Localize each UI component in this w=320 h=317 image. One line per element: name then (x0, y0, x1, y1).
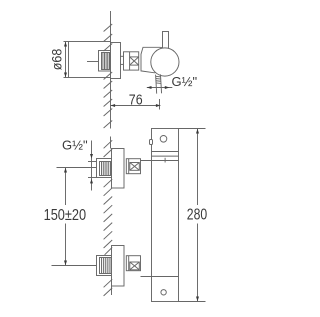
lower threaded wall connector (97, 256, 113, 276)
valve round body (151, 48, 179, 76)
svg-text:G½": G½" (62, 138, 88, 153)
svg-text:280: 280 (187, 207, 208, 224)
dimension 150±20 line with arrows (64, 168, 67, 266)
wall hatching between plates (104, 179, 113, 255)
handle stem (163, 32, 169, 49)
side button tab (150, 140, 153, 145)
lower inlet line across bar (141, 276, 179, 278)
wall segment above upper plate (110, 137, 112, 149)
svg-text:G½": G½" (172, 74, 198, 89)
lower union nut with X (126, 256, 140, 271)
dimension 76 line with arrows (111, 104, 161, 107)
center line stub (87, 61, 99, 63)
upper inlet line across bar (141, 160, 179, 162)
tick mark on upper inlet line (164, 158, 166, 163)
union nut with X (124, 52, 139, 70)
bar seam line 1 (152, 151, 179, 153)
dimension 76 extension line (159, 99, 161, 110)
svg-text:150±20: 150±20 (44, 207, 87, 224)
G1/2 dimension (bottom) vertical line (88, 141, 97, 191)
dimension ø68 line with arrows (64, 42, 67, 78)
upper escutcheon plate (112, 149, 125, 189)
screw hole bottom (161, 290, 166, 295)
svg-text:76: 76 (129, 93, 143, 109)
threaded in-wall connector (side view) (99, 51, 111, 72)
svg-text:ø68: ø68 (48, 49, 64, 71)
lower escutcheon plate (112, 246, 125, 287)
wall segment below lower plate (111, 286, 113, 295)
dimension 280 extension lines (179, 128, 206, 130)
hose G1/2 dimension arrows (147, 86, 173, 89)
connecting neck (121, 55, 124, 57)
bar seam line 2 (152, 155, 179, 157)
in-wall valve body (side view) (69, 42, 111, 78)
screw hole top (160, 136, 167, 143)
wall hatching (top side view) (104, 24, 113, 128)
wall hatching below lower plate (104, 279, 113, 296)
upper inlet center line (57, 167, 97, 169)
hose ladder (156, 74, 162, 93)
dimension ø68 extension overshoot (64, 41, 69, 43)
escutcheon plate (side view) (111, 43, 121, 79)
upper union nut with X (126, 159, 140, 174)
lower inlet center line (52, 265, 97, 267)
upper threaded wall connector (97, 159, 112, 178)
valve body (side view) (141, 47, 164, 73)
dimension 280 line with arrows (196, 129, 199, 302)
wall hatching above upper plate (104, 140, 113, 157)
wall line (top side view) (110, 11, 112, 129)
mixer bar body (152, 129, 179, 302)
